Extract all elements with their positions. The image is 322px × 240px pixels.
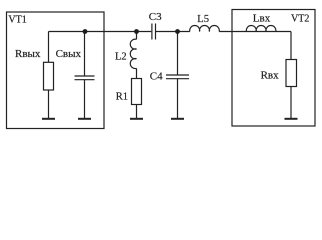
svg-text:L5: L5 [197,14,209,25]
wire Rvyh branch top [48,32,50,63]
terminal bar under C4 [171,118,184,120]
terminal bar under Rvh [285,118,298,120]
transistor block VT1 box [7,12,105,129]
svg-text:Lвх: Lвх [253,12,271,24]
capacitor C4 [166,75,189,79]
svg-text:Свых: Свых [56,48,82,60]
capacitor Svyh [75,76,95,80]
svg-text:L2: L2 [115,52,127,63]
wire Svyh branch top [84,32,86,77]
wire top rail right segment [219,31,291,33]
terminal bar under R1 [130,118,143,120]
wire R1 bottom [136,105,138,119]
svg-text:Rвх: Rвх [261,70,280,82]
wire top rail left segment [49,31,152,33]
svg-text:С4: С4 [150,71,163,83]
inductor L2 [130,39,136,68]
node junction dot Svyh [83,29,88,34]
inductor Lvh [246,26,276,32]
wire L2 to R1 [136,68,138,78]
node junction dot L2 [134,29,139,34]
resistor R1 [132,79,142,105]
svg-text:VT2: VT2 [291,13,309,24]
terminal bar under Svyh [78,118,91,120]
wire top rail middle segment [156,31,190,33]
capacitor C3 [152,24,156,40]
node junction dot C4 [175,29,180,34]
wire Rvyh branch bottom [48,90,50,118]
resistor Rvh [286,60,297,87]
wire Rvh branch bottom [290,87,292,119]
inductor L5 [190,26,220,32]
terminal bar under Rvyh [42,118,55,120]
svg-text:R1: R1 [116,92,128,103]
svg-text:VT1: VT1 [8,15,26,26]
transistor block VT2 box [232,10,315,127]
resistor Rvyh [44,62,54,90]
wire L2 branch top [136,32,138,40]
svg-text:Rвых: Rвых [15,48,41,60]
wire C4 branch bottom [177,79,179,118]
wire Rvh branch top [290,32,292,60]
wire C4 branch top [177,32,179,76]
wire Svyh branch bottom [84,80,86,118]
svg-text:С3: С3 [149,11,162,23]
